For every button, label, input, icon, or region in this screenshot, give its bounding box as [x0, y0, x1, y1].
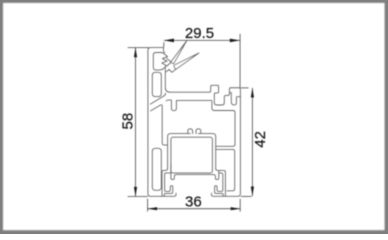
gasket claw tail to wall [166, 69, 176, 72]
arrow 58 up [134, 48, 137, 58]
arrow 29.5 left [164, 39, 174, 43]
wire left chamber inner wall and connector [151, 105, 168, 145]
gasket groove C-shape [153, 53, 167, 70]
slot lower in left wall [152, 148, 161, 190]
extension line 29.5 right shared with 42 [239, 34, 241, 88]
wire web top, hook, flange, right wall, bottom-right [165, 67, 240, 196]
extension line 58 bottom [128, 196, 148, 198]
svg-text:36: 36 [185, 194, 202, 211]
dimension linework [128, 34, 253, 212]
wire left diagonal strut upper [150, 93, 165, 104]
dimension texts [119, 25, 269, 211]
wire wall inner face top [164, 48, 165, 53]
dim line 36 [148, 208, 241, 210]
extension line 36 right [239, 199, 241, 212]
center box outer [168, 134, 216, 169]
screw boss bump left on box top [188, 129, 193, 134]
left foot down-hook and void top line [171, 164, 214, 180]
gasket spike lower [174, 53, 199, 69]
arrow 29.5 right [230, 39, 240, 43]
wire web underside, U-notch, step, cavity wall, slot bottom, right stub [166, 100, 235, 146]
dim line 29.5 [164, 39, 240, 41]
gasket claw finger [167, 58, 172, 66]
aluminium profile outline [148, 40, 241, 196]
extension line 58 top [128, 47, 150, 49]
gasket spike upper [171, 40, 187, 63]
arrow 58 down [134, 187, 137, 197]
extension line 42 bottom [241, 195, 252, 197]
wire right lower shelf and cavity wall [216, 149, 235, 190]
arrow 36 right [231, 207, 241, 210]
svg-text:58: 58 [119, 113, 136, 130]
extension line 29.5 left [163, 42, 165, 47]
dimension arrowheads [134, 39, 254, 211]
arrow 36 left [148, 207, 158, 210]
right foot C-slot outer [216, 168, 226, 196]
left foot C-slot interior and bottom curl [164, 173, 173, 196]
left foot C-slot outer [162, 168, 168, 196]
extension line 36 left [147, 199, 149, 212]
dim line 58 [135, 48, 137, 197]
right foot C-slot interior and bottom curl [215, 173, 224, 196]
svg-text:29.5: 29.5 [185, 25, 214, 42]
right foot down-hook [213, 171, 218, 180]
arrow 42 down [251, 187, 254, 197]
extension line 42 top [241, 87, 249, 89]
center box inner [171, 137, 213, 173]
arrow 42 up [251, 88, 254, 98]
dim line 42 [251, 88, 253, 196]
wire under-flange pocket and shelf [230, 93, 241, 105]
slot upper in left wall [152, 72, 161, 96]
wire outer contour left wall and bottom-left [148, 48, 176, 197]
svg-text:42: 42 [252, 131, 269, 148]
screw boss bump right on box top [196, 129, 201, 134]
